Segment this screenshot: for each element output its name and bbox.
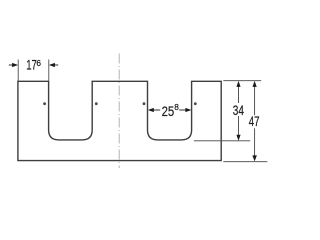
dim 25.8 left arrow tail (153, 109, 160, 111)
dim 47 line lower segment (254, 128, 256, 155)
svg-text:47: 47 (249, 114, 260, 129)
dim 47 down arrowhead (252, 155, 257, 161)
fixing hole dot 1 (43, 102, 46, 105)
middle right extension line (basin depth) (194, 140, 250, 142)
bottom right extension line (223, 161, 267, 163)
fixing hole dot 4 (194, 102, 197, 105)
top right extension line (223, 80, 261, 82)
dim 25.8 right arrowhead (185, 108, 191, 112)
dim 47 line upper segment (254, 87, 256, 116)
dim 34 up arrowhead (236, 81, 240, 87)
center line (118, 54, 120, 169)
dim 25.8 left arrowhead (148, 108, 154, 112)
dim 47 up arrowhead (253, 81, 257, 87)
dim 17.6 left arrow tail (9, 64, 13, 66)
extension line right of dim 17.6 (48, 60, 50, 81)
svg-text:34: 34 (233, 103, 245, 118)
dim 34 line lower segment (238, 116, 240, 135)
svg-text:6: 6 (36, 58, 41, 68)
svg-text:25: 25 (162, 104, 175, 119)
fixing hole dot 3 (143, 102, 146, 105)
dim 34 down arrowhead (236, 135, 240, 141)
dim 17.6 right arrowhead (49, 63, 55, 67)
extension line left of dim 17.6 (17, 60, 19, 81)
svg-text:17: 17 (26, 58, 37, 73)
dim 17.6 left arrowhead (12, 63, 18, 67)
dim 34 line upper segment (238, 87, 240, 104)
dim 25.8 right arrow tail (179, 109, 186, 111)
svg-text:8: 8 (174, 102, 179, 112)
dim 17.6 right arrow tail (54, 64, 58, 66)
countertop outline with two basin cutouts (18, 81, 221, 160)
fixing hole dot 2 (95, 102, 98, 105)
